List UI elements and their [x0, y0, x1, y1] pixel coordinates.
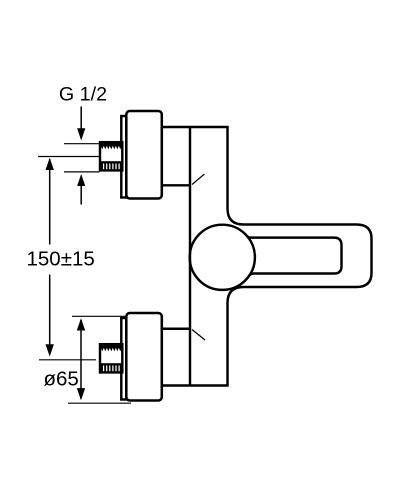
- svg-text:G 1/2: G 1/2: [59, 84, 107, 106]
- svg-text:150±15: 150±15: [27, 248, 95, 271]
- svg-text:ø65: ø65: [44, 368, 79, 391]
